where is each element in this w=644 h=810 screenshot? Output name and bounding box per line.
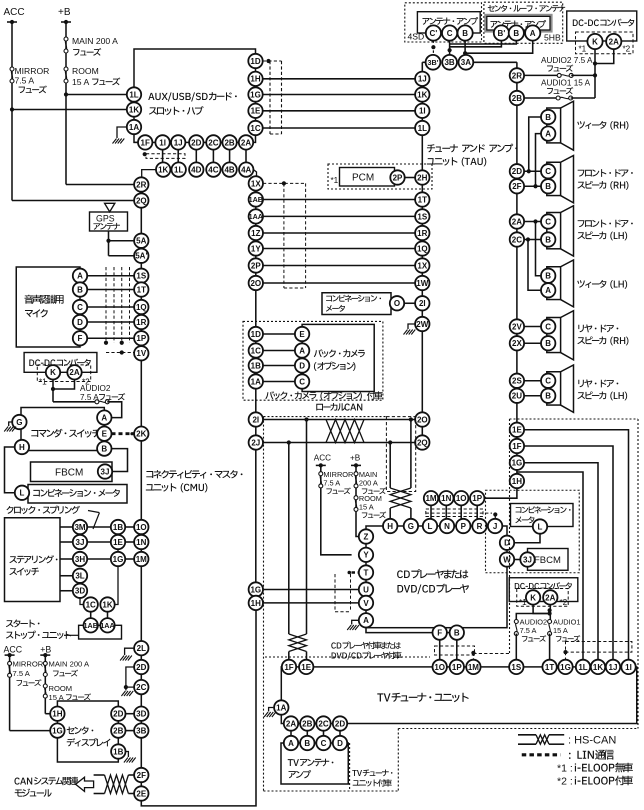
legend LIN dashed [522,753,561,756]
label fuse2 [99,393,125,400]
svg-text:2Q: 2Q [417,438,428,447]
variant dashed box PCM [328,164,432,189]
pin 1P (CMU) [134,331,148,345]
wire 1B to D [263,365,295,367]
pin 2Q (TAU local CAN) [415,435,429,449]
svg-text:G: G [16,418,22,427]
svg-text:1G: 1G [250,90,261,99]
wire tweeter LH A tap [528,240,541,291]
pin 2A (TV bottom) [290,731,292,736]
wire 1B to 1O [125,526,134,528]
svg-text:2C: 2C [318,719,328,728]
svg-text:1I: 1I [419,107,426,116]
svg-text:PCM: PCM [352,173,374,184]
svg-text:1Z: 1Z [251,229,260,238]
wire 2S to rear LH C [524,380,541,382]
pin 3L (clockspring) [73,569,87,583]
LIN dashed box above TV 1G [566,642,632,653]
pin 1B (center display) [111,744,125,758]
wire ACC rail [7,21,17,23]
wire 4A to 1X [253,170,256,177]
svg-text:1AB: 1AB [249,195,263,204]
svg-text:1H: 1H [251,599,261,608]
pin C (rear RH) [541,319,555,333]
svg-text:1M: 1M [136,555,147,564]
unit antenna amp box 5HB [486,15,551,31]
pin A (CD left) [359,613,373,627]
pin B (mic) [73,282,87,296]
svg-text:1S: 1S [136,272,146,281]
pin 1G (hub right) [248,87,262,101]
pin 2V (TAU right) [510,319,524,333]
ground at commander G [9,422,13,426]
svg-text:FBCM: FBCM [55,468,83,479]
pin 1T (TV top) [542,660,556,674]
pin A (TV amp) [284,736,298,750]
unit CMU edge (vertical bus line) [140,185,142,801]
pin 1K (TAU left) [415,87,429,101]
svg-text:1H: 1H [512,477,522,486]
pin 2R (CMU) [134,177,148,191]
fuse ROOM 15A (top) [64,67,68,83]
unit start stop box [79,625,122,639]
wire ACC rail to 2Q [12,200,134,202]
HS-CAN lattice vertical to CD player [390,488,411,508]
pin 1H (center display) [50,707,64,721]
svg-text:1J: 1J [609,663,618,672]
svg-text:1B: 1B [251,361,261,370]
shield box right of hub [269,61,271,134]
svg-text:1T: 1T [545,663,554,672]
svg-text:5A': 5A' [135,252,147,261]
fuse MAIN 200A (top) [64,37,68,53]
speaker rear door RH [547,318,561,353]
svg-text:1H: 1H [52,710,62,719]
svg-text:*2: *2 [560,598,568,607]
pin D (TV amp) [333,736,347,750]
svg-text:1O: 1O [434,663,445,672]
unit back camera box [302,324,374,391]
LIN stub to 1G [565,652,567,660]
HS-CAN twisted pair to CAN modules [94,774,105,776]
variant dashed box meter FBCM right [486,490,580,573]
svg-text:C: C [447,29,453,38]
wire 2R to fuse [524,74,559,76]
svg-text:1B: 1B [113,523,123,532]
svg-text:1L: 1L [129,90,138,99]
pin O (meter mid) [390,296,404,310]
wire 2X to rear RH B [524,342,541,344]
wire 1G down to 1K [115,549,118,604]
wire tweeter RH A tap [536,134,542,187]
wire ACC mid rail to Y [321,465,352,554]
svg-text:2P: 2P [393,173,403,182]
svg-text:1G: 1G [250,585,261,594]
wire fuse to TV 1S [515,634,517,660]
unit FBCM box (right) [528,549,569,571]
svg-text:F: F [78,334,83,343]
wire hub 1E to TAU 1I [263,110,415,112]
unit TV tuner box [281,667,636,724]
pin 2L (CMU) [134,641,148,655]
svg-text:C: C [321,739,327,748]
pin 1W (TAU left) [415,276,429,290]
svg-text:D: D [337,739,343,748]
svg-text:C: C [545,217,551,226]
svg-text:2C: 2C [136,683,146,692]
svg-text:7.5 A: 7.5 A [15,76,35,86]
wire +B rail lower [44,655,46,714]
wire 1G to 1M [125,558,134,560]
wire 3D to 1C [80,598,84,605]
svg-text:FBCM: FBCM [534,555,561,566]
svg-text:3J: 3J [76,538,85,547]
pin 1L (hub bottom row2) [172,162,186,176]
wire 1Z to TAU 1R [263,232,415,234]
svg-text:1G: 1G [113,555,124,564]
svg-text:3B: 3B [444,58,454,67]
pin 2A (DC-DC lower) [543,590,557,604]
svg-text:B: B [77,285,83,294]
wire 1F to 1A elbow [134,141,138,143]
pin B (front LH) [541,232,555,246]
wire 2P to 2H [405,177,415,179]
svg-text:1K: 1K [417,90,427,99]
svg-text:1Q: 1Q [136,303,147,312]
pin 2A (hub bottom row1) [245,142,247,169]
svg-text:1E: 1E [301,663,311,672]
label CD player variant [331,642,400,650]
svg-text:2E: 2E [136,789,146,798]
svg-text:3H: 3H [75,555,85,564]
pin 1E (TAU right) [510,423,524,437]
pin B (front RH) [541,179,555,193]
variant dotted box back camera [243,321,383,400]
pin F (mic) [73,331,87,345]
pin A (camera) [295,343,309,357]
label CMU [146,470,242,479]
svg-text:4D: 4D [191,165,201,174]
svg-text:A: A [101,413,107,422]
pin 2A (DC-DC left) [67,365,81,379]
svg-text:1M: 1M [468,663,479,672]
pin 2O (hub lower) [249,276,263,290]
wire 2B to 3B [126,730,135,732]
pin 1T (TAU left) [415,192,429,206]
variant dotted line TV amp [349,743,351,791]
wire 3M to 1B [87,526,111,528]
label front door RH [578,169,633,177]
pin 1N (CD conn) [439,491,453,505]
svg-text:H: H [19,443,25,452]
pin 1P (CD conn) [470,491,484,505]
pin 2B (TAU right) [510,91,524,105]
svg-text:1T: 1T [418,195,427,204]
arrow CAN modules [76,777,94,791]
pin 2I (hub lower) [249,412,263,426]
pin H (commander) [15,440,29,454]
wire C to 3B [449,40,451,55]
pin 1L (TV top) [576,660,590,674]
pin 3B (CMU lower) [134,723,148,737]
wire A elbow [465,40,533,53]
svg-text:F: F [437,628,442,637]
pin T (CD left) [359,565,373,579]
svg-text:C: C [545,167,551,176]
ground at hub 1A [117,127,127,138]
pin B (rear LH) [541,389,555,403]
speaker tweeter RH [547,108,561,143]
wire fuse to commander A [107,402,121,418]
pin 1S (CMU) [134,269,148,283]
svg-text:1F: 1F [141,138,150,147]
svg-text:1G: 1G [560,663,571,672]
wire 1G to U [263,589,359,591]
variant dotted box CD player region [263,417,265,791]
pin 2D (center display) [111,707,125,721]
wire 2B to fuse [524,97,558,99]
svg-text:2S: 2S [512,377,522,386]
svg-text:G: G [408,522,414,531]
LIN dashed to J [426,512,492,514]
speaker rear door LH [547,372,561,405]
fuse ROOM lower [43,684,47,698]
pin B (tweeter RH) [541,110,555,124]
svg-text:C: C [545,322,551,331]
pin 2Q (CMU) [134,193,148,207]
pin 1K (start-stop) [107,612,109,619]
LIN dashed E to 2K [112,432,135,435]
pin 1Q (CMU) [134,300,148,314]
shield dashed from 1X [263,182,306,184]
svg-text:2R: 2R [512,71,522,80]
svg-text:V: V [363,599,369,608]
svg-text:H: H [387,522,393,531]
label rear door RH [578,324,618,332]
pin 3J (clockspring) [73,535,87,549]
svg-text:K: K [50,368,56,377]
svg-text:*1: *1 [579,45,587,54]
wire mic C to 1Q [87,306,134,308]
svg-text:5A: 5A [136,237,146,246]
svg-text:+B: +B [350,454,361,463]
svg-text:2C: 2C [512,235,522,244]
svg-text:1E: 1E [512,426,522,435]
pin J (CD top) [488,519,502,533]
pin A (commander) [97,410,111,424]
unit CD player box [366,526,507,628]
svg-text:1D: 1D [250,57,260,66]
svg-text:7.5 A: 7.5 A [13,669,31,678]
pin B (rear RH) [541,336,555,350]
pointer clock spring [88,511,99,513]
svg-text:*2 :: *2 : [557,776,573,788]
svg-text:7.5 A: 7.5 A [80,393,99,402]
unit combination meter box (left) [28,485,127,504]
svg-text:1O: 1O [456,494,467,503]
pin 1M (TV top) [466,660,480,674]
pin L (CD top) [423,519,437,533]
svg-text:3D: 3D [75,587,85,596]
svg-text:2A: 2A [545,593,555,602]
svg-text:C: C [299,377,305,386]
svg-text:2B: 2B [113,726,123,735]
pin E (camera) [295,327,309,341]
pin 1AB (hub lower) [249,192,263,206]
svg-text:3M: 3M [74,523,85,532]
pin 5A2 (CMU) [134,249,148,263]
pin C (front LH) [541,214,555,228]
wire B5hb elbow [450,40,517,44]
pin B (TV amp) [300,736,314,750]
pin Z (CD left) [359,529,373,543]
pin B (CD bottom) [456,640,458,660]
pin H (CD top) [383,519,397,533]
pin 3H (clockspring) [73,552,87,566]
svg-text:1G: 1G [512,459,523,468]
svg-text:1O: 1O [136,523,147,532]
pin 1N (CMU) [134,535,148,549]
svg-text:1F: 1F [284,663,293,672]
label back camera variant [265,391,382,400]
ground at CMU 2L [125,648,135,655]
ground at center display 1B [126,752,129,758]
svg-text:C: C [545,377,551,386]
pointer start stop [64,634,79,636]
wire mic D to 1R [87,321,134,323]
pin 2U (TAU right) [510,389,524,403]
pin E (commander) [97,427,111,441]
svg-text:N: N [444,522,450,531]
svg-text:15 A: 15 A [72,77,89,87]
pin 1Z (hub lower) [249,226,263,240]
svg-text:B: B [545,392,551,401]
pin 1L (hub left) [127,87,141,101]
wire 1AB to TAU 1T [263,199,415,201]
wire ACC to pin 1K [10,107,14,111]
svg-text:2D: 2D [113,710,123,719]
pin 3B (TAU top) [442,55,457,70]
pin 2A (DC-DC top) [606,34,621,49]
svg-text:+B: +B [58,7,71,18]
LIN dashed box below T [334,574,336,612]
pin 2F (TAU right) [510,179,524,193]
unit TV antenna amp box [281,743,348,784]
svg-text:4B: 4B [224,165,234,174]
pin 1M (CMU) [134,552,148,566]
svg-text:E: E [299,330,305,339]
pin 1S (TAU left) [415,209,429,223]
label local CAN [316,403,362,411]
pin 2B (hub bottom row1) [229,142,231,169]
svg-text:1F: 1F [512,442,521,451]
svg-text:R: R [477,522,483,531]
svg-text:AUDIO2: AUDIO2 [80,384,111,393]
svg-text:1X: 1X [251,179,261,188]
speaker front door RH [547,162,561,195]
pin 1H (hub right) [248,72,262,86]
wire 2P to TAU 1X [263,265,415,267]
pin 1V (CMU) [134,346,148,360]
svg-text:D: D [77,318,83,327]
svg-text:1B: 1B [113,747,123,756]
pin 2D (TAU right) [510,164,524,178]
svg-text:2P: 2P [251,261,261,270]
pin 1Y (hub lower) [249,241,263,255]
svg-text:4C: 4C [208,165,218,174]
svg-text:15 A: 15 A [359,502,374,511]
variant dashed box 4SD [405,3,482,42]
svg-text:1K: 1K [158,165,168,174]
svg-text:1A: 1A [251,377,261,386]
pin 1A (hub left) [127,120,141,134]
pin B (tweeter LH) [541,269,555,283]
pin C (camera) [295,374,309,388]
pin 1K (hub left) [127,102,141,116]
pin 4D (hub bottom row2) [189,162,203,176]
svg-text:MIRROR: MIRROR [13,660,44,669]
svg-text:1C: 1C [86,600,96,609]
wire mic B to 1T [87,289,134,291]
pin 2A (TAU right) [510,214,524,228]
svg-text:J: J [493,522,497,531]
pin 2O (TAU local CAN) [415,412,429,426]
svg-text:*1: *1 [39,377,47,386]
pin G (CD top) [404,519,418,533]
pin 1D (hub right) [248,54,262,68]
svg-text:2D: 2D [512,167,522,176]
unit TAU top edge [422,61,427,63]
wire 1K to 2R riser [142,170,156,178]
svg-text:1AA: 1AA [249,212,263,221]
unit voice recognition microphone box [16,267,80,347]
svg-text:B: B [545,339,551,348]
pin 2S (TAU right) [510,374,524,388]
pin 1I (hub bottom row1) [162,142,164,169]
svg-text:+B: +B [40,645,51,655]
svg-text:2O: 2O [250,279,261,288]
pin 1F (TV top) [282,660,296,674]
LIN dashed box under hub row1 [143,152,147,156]
wire K 2A join [52,380,54,402]
wire TAU 1E to TV 1I [524,430,628,660]
pin 1J (hub bottom row1) [177,142,179,169]
svg-text:AUDIO1 15 A: AUDIO1 15 A [541,79,591,88]
label start stop unit [6,619,40,627]
unit DC-DC converter box (left) [24,353,97,373]
pin D (camera) [295,358,309,372]
pin K (DC-DC left) [46,365,60,379]
legend HS-CAN symbol [518,734,536,736]
fuse AUDIO2 (lower) [514,620,518,636]
pin 3J (FBCM right) [520,552,534,566]
fuse ROOM mid [354,496,358,512]
label tweeter LH [577,280,627,289]
pin 1C (hub right) [248,121,262,135]
wire CAN pair down to TV 1F [288,443,290,635]
wire 2O to TAU 1W [263,282,415,284]
svg-text:GPS: GPS [96,214,115,224]
svg-text:Z: Z [364,532,369,541]
wire mic F to 1P [87,337,134,339]
wire ACC rail lower [9,655,11,731]
fuse MIRROR lower [8,661,12,677]
svg-text:B: B [545,272,551,281]
svg-text:7.5 A: 7.5 A [323,478,340,487]
svg-text:1P: 1P [136,334,146,343]
unit FBCM box [31,462,113,482]
pin 1F (TAU right) [510,439,524,453]
